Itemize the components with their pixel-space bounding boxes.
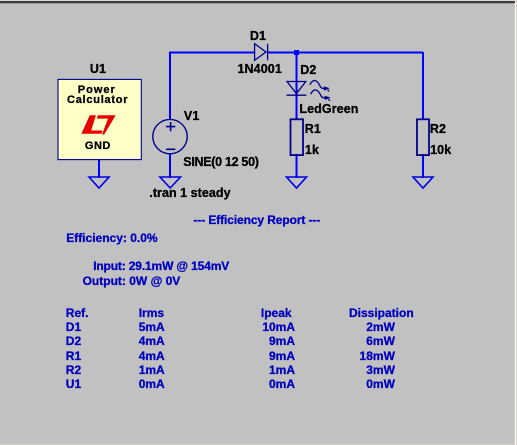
resistor R2 body: [417, 119, 429, 155]
row D1: [66, 321, 81, 333]
label R1 value 1k: [305, 144, 319, 157]
wire top horizontal left of D1: [169, 51, 254, 53]
label Power: [78, 85, 116, 96]
diode D1 cathode bar: [267, 44, 269, 61]
label D1: [250, 30, 266, 43]
LED D2 cathode bar: [287, 94, 307, 96]
V1 minus sign: [166, 148, 175, 150]
label Calculator: [67, 95, 128, 106]
label R1: [305, 123, 321, 136]
wire R2 to ground: [422, 154, 424, 178]
report efficiency line: [66, 232, 157, 244]
wire top horizontal right of D1: [268, 51, 423, 53]
label LedGreen: [299, 103, 358, 116]
label 1N4001: [238, 63, 282, 76]
table header Ipeak: [261, 307, 292, 319]
row U1: [66, 378, 81, 390]
diode D1: [255, 44, 266, 61]
wire junction down to D2: [296, 52, 298, 120]
table header Ref: [66, 307, 89, 319]
voltage source V1 circle: [153, 119, 187, 153]
wire R1 to ground: [296, 154, 298, 178]
U1 power calculator box: [58, 79, 141, 159]
node junction square: [294, 50, 299, 55]
ground for R1: [287, 177, 307, 188]
LED D2 light arrow upper: [310, 81, 329, 92]
report input line: [93, 260, 229, 272]
ground for V1: [160, 177, 181, 188]
table header Irms: [139, 307, 164, 319]
resistor R1 body: [291, 119, 304, 155]
table header Dissipation: [349, 307, 414, 319]
LED D2 triangle: [287, 82, 306, 94]
wire V1 to ground: [169, 153, 171, 178]
label U1: [90, 63, 106, 76]
wire V1 top vertical: [169, 52, 171, 120]
report output line: [83, 275, 181, 287]
LED D2 light arrow lower: [311, 90, 330, 101]
top window edge: [0, 0, 517, 1]
row R1: [66, 350, 81, 362]
LT logo L stroke: [81, 115, 102, 134]
LT logo T stroke: [97, 115, 116, 134]
row R2: [66, 364, 81, 376]
label R2 value 10k: [430, 144, 451, 157]
V1 plus sign: [166, 122, 175, 131]
ground for U1: [89, 177, 109, 188]
label SINE: [183, 156, 258, 169]
bottom window edge: [0, 443, 515, 444]
label V1: [184, 110, 200, 123]
ground for R2: [413, 177, 433, 188]
label D2: [300, 64, 316, 77]
wire R2 branch vertical: [422, 52, 424, 120]
label GND: [85, 141, 111, 152]
right window edge: [514, 3, 515, 445]
row D2: [66, 335, 81, 347]
wire U1 to ground: [98, 160, 100, 178]
report title: [193, 214, 320, 226]
spice directive .tran: [149, 187, 230, 200]
label R2: [430, 123, 446, 136]
